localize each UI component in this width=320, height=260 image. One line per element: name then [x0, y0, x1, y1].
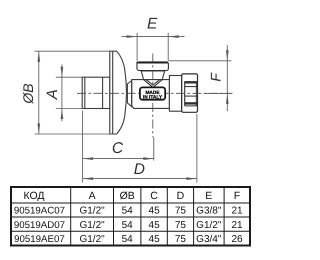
- svg-text:G1/2": G1/2": [79, 206, 105, 217]
- svg-text:54: 54: [122, 206, 134, 217]
- svg-text:75: 75: [175, 234, 187, 245]
- svg-text:ØB: ØB: [120, 190, 135, 202]
- table row 1: [14, 206, 243, 217]
- cone between flange and body: [127, 81, 131, 107]
- svg-text:D: D: [177, 190, 185, 202]
- svg-text:F: F: [208, 72, 224, 82]
- svg-text:90519AE07: 90519AE07: [14, 234, 65, 245]
- svg-text:C: C: [150, 190, 158, 202]
- svg-text:75: 75: [175, 220, 187, 231]
- svg-text:21: 21: [231, 206, 243, 217]
- valve body block: [132, 80, 170, 109]
- svg-text:45: 45: [149, 206, 161, 217]
- horizontal centerline: [77, 92, 233, 94]
- handle cap: [137, 62, 168, 71]
- svg-text:E: E: [205, 190, 212, 202]
- svg-text:G3/4": G3/4": [196, 234, 222, 245]
- svg-text:E: E: [147, 16, 158, 33]
- dimension D: [83, 114, 197, 183]
- svg-text:A: A: [89, 190, 96, 202]
- svg-text:45: 45: [149, 234, 161, 245]
- table header row: [23, 190, 240, 202]
- svg-text:G1/2": G1/2": [79, 220, 105, 231]
- dimension A: [56, 65, 82, 122]
- dimension ØB: [35, 51, 111, 134]
- svg-text:45: 45: [149, 220, 161, 231]
- svg-text:A: A: [44, 89, 61, 100]
- svg-text:21: 21: [231, 220, 243, 231]
- dimension E: [122, 33, 185, 61]
- table row 2: [14, 220, 243, 231]
- svg-text:G3/8": G3/8": [196, 206, 222, 217]
- table grid: [11, 187, 250, 246]
- bonnet neck: [141, 71, 165, 80]
- svg-text:G1/2": G1/2": [196, 220, 222, 231]
- outlet nut: [182, 74, 198, 112]
- dimension F: [169, 45, 232, 111]
- funnel V lines on bonnet: [144, 80, 162, 87]
- vertical centerline: [152, 54, 154, 138]
- valve flange ØB: [110, 51, 127, 134]
- svg-text:54: 54: [122, 220, 134, 231]
- MADE IN ITALY label: [140, 87, 165, 100]
- svg-text:90519AD07: 90519AD07: [14, 220, 65, 231]
- svg-text:ØB: ØB: [20, 83, 36, 104]
- valve inlet threaded stub: [82, 77, 110, 108]
- svg-text:90519AC07: 90519AC07: [14, 206, 65, 217]
- table row 3: [14, 234, 243, 245]
- svg-text:C: C: [112, 140, 124, 157]
- svg-text:G1/2": G1/2": [79, 234, 105, 245]
- nut hex face lines: [185, 81, 198, 106]
- outlet sleeve: [169, 76, 181, 112]
- svg-text:КОД: КОД: [23, 190, 44, 202]
- svg-text:F: F: [234, 190, 240, 202]
- svg-text:IN ITALY: IN ITALY: [143, 95, 163, 101]
- svg-text:54: 54: [122, 234, 134, 245]
- dimension C: [83, 111, 154, 164]
- svg-text:75: 75: [175, 206, 187, 217]
- svg-text:D: D: [134, 161, 145, 178]
- svg-text:26: 26: [231, 234, 243, 245]
